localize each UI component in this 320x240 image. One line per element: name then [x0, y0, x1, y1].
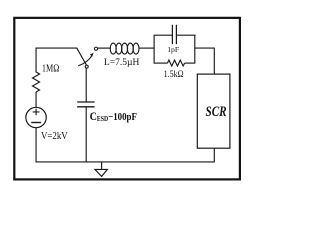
wire bottom rail: [36, 161, 215, 163]
svg-text:CESD−100pF: CESD−100pF: [90, 110, 137, 123]
wire RC block top rail right: [176, 34, 195, 36]
voltage source plus sign: [33, 109, 40, 116]
svg-text:SCR: SCR: [206, 104, 227, 120]
capacitor C_ESD plates: [77, 102, 94, 107]
ground stub: [101, 162, 103, 170]
wire top-left horizontal: [36, 47, 77, 49]
switch fixed contact circle: [94, 47, 97, 50]
wire inductor to RC block: [139, 47, 155, 49]
wire RC block bottom rail left: [154, 62, 168, 64]
capacitor C1 1pF plates: [172, 25, 176, 44]
wire C_ESD to bottom rail: [85, 107, 87, 163]
wire source to bottom rail: [35, 128, 37, 163]
wire RC block left edge: [153, 35, 155, 63]
wire SCR to bottom rail: [213, 148, 215, 162]
switch S1 blade: [77, 48, 87, 65]
voltage source minus sign: [31, 122, 41, 124]
voltage source V1 circle: [26, 107, 46, 127]
inductor L1 coil: [110, 43, 139, 54]
svg-text:V=2kV: V=2kV: [41, 131, 68, 143]
wire switch pivot down to C_ESD: [85, 68, 87, 102]
svg-text:L=7.5µH: L=7.5µH: [104, 57, 140, 68]
switch actuation arrow: [78, 55, 92, 66]
svg-text:1.5kΩ: 1.5kΩ: [164, 69, 184, 80]
wire block to SCR drop: [195, 48, 215, 75]
switch pivot circle: [85, 65, 88, 68]
wire RC block right edge: [194, 35, 196, 63]
svg-text:1pF: 1pF: [167, 45, 179, 54]
svg-text:1MΩ: 1MΩ: [42, 64, 59, 75]
wire resistor to source: [35, 92, 37, 108]
wire switch to inductor: [98, 47, 111, 49]
SCR U1 box: [197, 74, 230, 148]
wire RC block bottom rail right: [185, 62, 196, 64]
wire RC block top rail left: [154, 34, 173, 36]
wire left vertical upper: [35, 48, 37, 73]
ground triangle: [95, 169, 108, 176]
resistor R2 1.5kΩ (zigzag): [167, 60, 184, 66]
resistor R1 1MΩ (zigzag): [33, 72, 40, 92]
